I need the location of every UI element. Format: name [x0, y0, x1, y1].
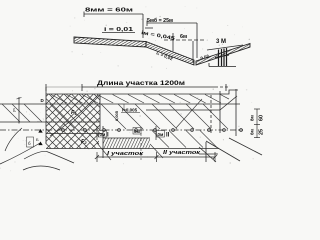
svg-text:0м: 0м — [134, 129, 141, 134]
svg-text:0,005: 0,005 — [114, 110, 119, 121]
svg-text:б: б — [28, 141, 31, 146]
svg-text:5мб = 25м: 5мб = 25м — [147, 17, 173, 24]
svg-text:i = 0,01: i = 0,01 — [104, 27, 133, 33]
svg-text:i=0,005: i=0,005 — [122, 108, 138, 113]
svg-text:0м: 0м — [100, 132, 107, 137]
svg-text:F1: F1 — [71, 110, 77, 116]
svg-text:25: 25 — [259, 129, 265, 135]
svg-text:60: 60 — [259, 115, 265, 121]
svg-text:Длина участка 1200м: Длина участка 1200м — [97, 81, 186, 87]
svg-text:уч: уч — [11, 108, 16, 112]
svg-text:6м: 6м — [180, 34, 187, 40]
svg-text:3 М: 3 М — [216, 39, 226, 45]
svg-text:8мм = 60м: 8мм = 60м — [85, 8, 133, 14]
svg-text:Б: Б — [36, 137, 39, 142]
svg-text:8м: 8м — [250, 114, 255, 121]
svg-text:0м: 0м — [158, 132, 165, 137]
svg-text:II: II — [166, 133, 170, 139]
svg-text:6м: 6м — [250, 128, 255, 135]
svg-text:II участок: II участок — [163, 150, 202, 156]
svg-text:F2: F2 — [81, 139, 87, 145]
